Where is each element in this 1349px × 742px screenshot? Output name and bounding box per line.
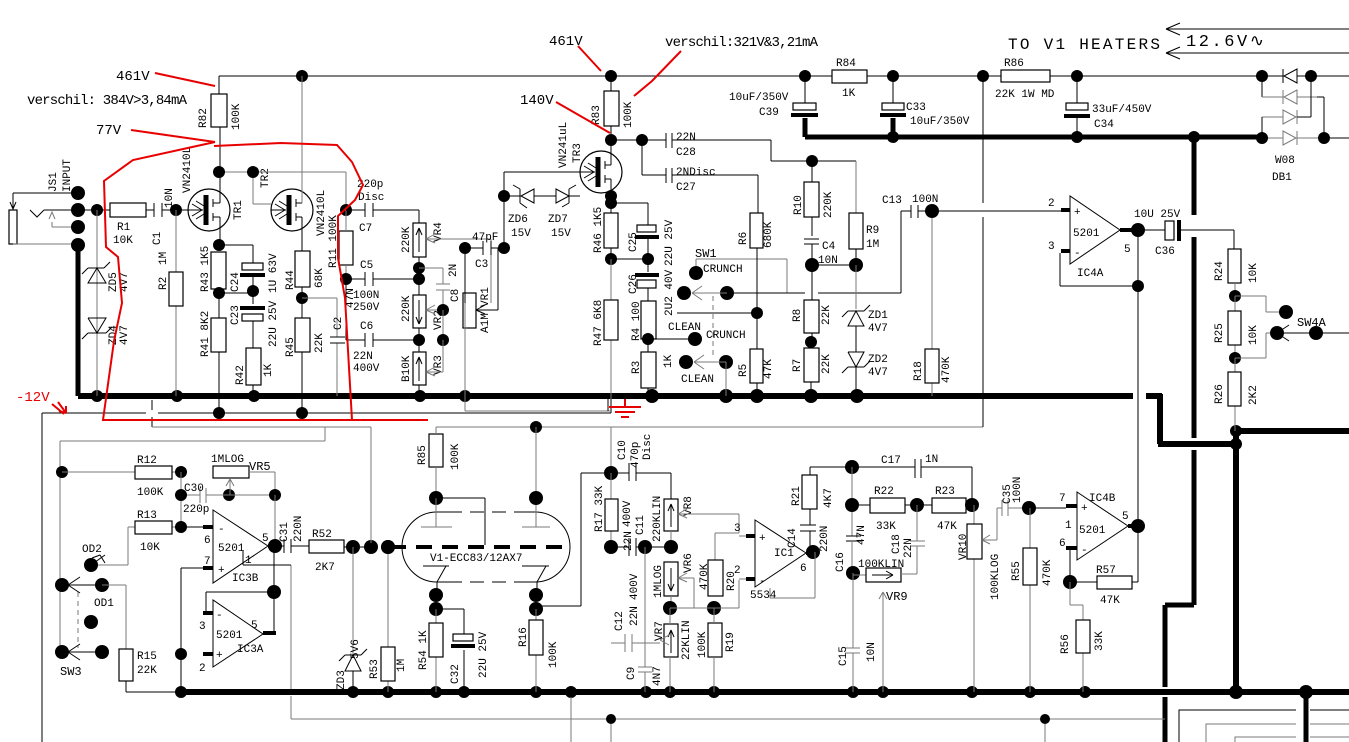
svg-text:+: +: [216, 650, 223, 662]
svg-text:5V6: 5V6: [350, 639, 362, 659]
capacitor C10 470p Disc: [581, 434, 671, 499]
svg-text:C6: C6: [360, 321, 373, 333]
svg-text:100K: 100K: [623, 101, 635, 128]
potentiometer VR1 A1M: [451, 248, 498, 396]
red annotation 461V right: [549, 34, 601, 71]
svg-text:470K: 470K: [1042, 559, 1054, 586]
svg-text:220KLIN: 220KLIN: [652, 496, 664, 542]
svg-text:100K: 100K: [137, 487, 164, 499]
svg-text:100N: 100N: [912, 194, 938, 206]
svg-text:CLEAN: CLEAN: [681, 374, 714, 386]
svg-text:VN2410L: VN2410L: [316, 190, 328, 236]
svg-text:R4 100: R4 100: [631, 301, 643, 341]
svg-text:Disc: Disc: [642, 434, 654, 460]
svg-text:100N: 100N: [353, 290, 379, 302]
svg-text:R17 33K: R17 33K: [594, 485, 606, 532]
potentiometer VR3 B10K: [401, 340, 445, 396]
capacitor C36 10U 25V: [1134, 209, 1234, 258]
zener ZD4 4V7: [82, 318, 131, 345]
svg-text:15V: 15V: [511, 228, 531, 240]
svg-text:R57: R57: [1096, 565, 1116, 577]
svg-text:R18: R18: [913, 361, 925, 381]
capacitor C14 220N: [787, 525, 831, 552]
svg-text:47K: 47K: [937, 521, 957, 533]
capacitor C4 10N: [804, 239, 863, 272]
svg-text:ZD2: ZD2: [868, 354, 888, 366]
svg-text:VR1: VR1: [480, 287, 492, 307]
capacitor C25 22U 25V: [611, 203, 676, 266]
op-amp IC1 5534: [734, 520, 820, 602]
svg-text:R8: R8: [792, 309, 804, 322]
svg-text:-12V: -12V: [16, 390, 50, 406]
svg-text:6: 6: [1059, 538, 1066, 550]
svg-text:47pF: 47pF: [472, 232, 498, 244]
svg-text:R54 1K: R54 1K: [418, 630, 430, 670]
svg-text:+: +: [218, 565, 225, 577]
diode OD2: [82, 544, 105, 572]
transistor TR3 VN241uL: [558, 122, 622, 209]
svg-text:100K: 100K: [450, 443, 462, 470]
bridge rectifier W08 DB1: [1256, 69, 1349, 184]
svg-text:100K: 100K: [697, 631, 709, 658]
switch SW4A: [1235, 296, 1349, 358]
svg-text:100KLIN: 100KLIN: [858, 559, 904, 571]
svg-text:47K: 47K: [1100, 595, 1120, 607]
capacitor C2 47N: [302, 288, 357, 396]
svg-text:470K: 470K: [699, 563, 711, 590]
wire below-bus line y=719: [291, 565, 1165, 742]
svg-text:220K: 220K: [401, 295, 413, 322]
capacitor C32 22U 25V: [436, 609, 490, 692]
svg-text:15V: 15V: [551, 228, 571, 240]
resistor R1: [91, 203, 146, 247]
resistor R18 470K: [913, 211, 953, 396]
svg-text:verschil:321V&3,21mA: verschil:321V&3,21mA: [665, 35, 819, 51]
resistor R6 680K: [738, 213, 775, 319]
zener ZD5 4V7: [82, 210, 131, 396]
svg-text:4V7: 4V7: [868, 323, 888, 335]
svg-text:R45: R45: [285, 337, 297, 357]
red loop around input stage: [103, 142, 428, 420]
svg-text:C10: C10: [617, 440, 629, 460]
svg-text:5201: 5201: [1079, 525, 1106, 537]
svg-text:R19: R19: [725, 632, 737, 652]
svg-text:ZD6: ZD6: [508, 214, 528, 226]
wire -12V rail y=413: [42, 399, 611, 742]
resistor R20 470K: [699, 560, 738, 596]
svg-text:22K: 22K: [821, 305, 833, 325]
capacitor C39 10uF/350V: [729, 76, 818, 119]
svg-text:R10: R10: [793, 195, 805, 215]
svg-text:VR9: VR9: [886, 590, 908, 604]
svg-text:33uF/450V: 33uF/450V: [1092, 104, 1152, 116]
svg-text:22N: 22N: [623, 531, 635, 551]
svg-text:C17: C17: [881, 455, 901, 467]
svg-text:6: 6: [800, 563, 807, 575]
svg-text:R16: R16: [518, 627, 530, 647]
svg-text:470K: 470K: [941, 356, 953, 383]
resistor R56 33K: [1060, 582, 1106, 692]
svg-text:verschil: 384V>3,84mA: verschil: 384V>3,84mA: [27, 93, 188, 109]
svg-text:220p: 220p: [183, 504, 209, 516]
resistor R47 6K8: [593, 259, 618, 399]
resistor R5 47K: [738, 313, 775, 396]
svg-text:C14: C14: [787, 528, 799, 548]
svg-text:C3: C3: [475, 259, 488, 271]
svg-text:5534: 5534: [750, 590, 777, 602]
svg-text:C13: C13: [882, 195, 902, 207]
capacitor C35 100N: [997, 477, 1066, 516]
svg-text:R9: R9: [866, 225, 879, 237]
svg-text:1: 1: [1065, 520, 1072, 532]
resistor R24 10K: [1214, 249, 1260, 302]
resistor R13 10K: [91, 510, 187, 565]
resistor R46 1K5: [593, 203, 618, 265]
resistor R42 1K: [235, 348, 275, 396]
potentiometer VR4 220K: [401, 222, 491, 303]
svg-text:B10K: B10K: [401, 355, 413, 382]
svg-text:C9: C9: [626, 667, 638, 680]
svg-text:TR3: TR3: [572, 143, 584, 163]
svg-text:C12: C12: [614, 611, 626, 631]
svg-text:400V: 400V: [353, 363, 380, 375]
svg-text:VR7: VR7: [654, 621, 666, 641]
svg-text:10K: 10K: [113, 235, 133, 247]
svg-text:C26: C26: [628, 274, 640, 294]
svg-text:4V7: 4V7: [868, 367, 888, 379]
svg-text:3: 3: [734, 523, 741, 535]
svg-text:100K: 100K: [231, 103, 243, 130]
svg-text:100N: 100N: [1012, 477, 1024, 503]
svg-text:10K: 10K: [140, 542, 160, 554]
resistor R7 22K: [792, 342, 833, 396]
svg-text:220K: 220K: [823, 191, 835, 218]
svg-text:C34: C34: [1094, 119, 1114, 131]
svg-text:VN2410L: VN2410L: [182, 147, 194, 193]
svg-text:ZD1: ZD1: [868, 310, 888, 322]
svg-text:461V: 461V: [549, 34, 583, 50]
resistor R8 22K: [792, 265, 833, 348]
diode OD1 switch: [55, 577, 126, 649]
svg-text:10N: 10N: [866, 642, 878, 662]
resistor R55 470K: [1011, 508, 1054, 692]
svg-text:IC4A: IC4A: [1077, 268, 1104, 280]
svg-text:22K: 22K: [314, 333, 326, 353]
capacitor C18 22N: [891, 505, 925, 574]
svg-text:2: 2: [734, 565, 741, 577]
resistor R2 1M: [158, 210, 183, 396]
svg-text:22K: 22K: [137, 665, 157, 677]
wire thick heater vertical x=1194: [1165, 137, 1194, 742]
wire gray feed y=441: [60, 427, 325, 652]
resistor R44 68K: [285, 251, 326, 304]
svg-text:C27: C27: [676, 182, 696, 194]
capacitor C23 22U 25V: [219, 291, 280, 348]
resistor R43 1K5: [200, 239, 226, 299]
svg-text:R25: R25: [1214, 323, 1226, 343]
svg-text:TR2: TR2: [260, 168, 272, 188]
zener ZD7 15V: [548, 185, 580, 240]
capacitor C11 22N 400V: [604, 500, 678, 556]
svg-text:1M: 1M: [158, 252, 170, 265]
svg-text:100K: 100K: [548, 641, 560, 668]
resistor R54 1K: [418, 609, 443, 692]
wire heater lines to V1: [1008, 23, 1349, 59]
svg-text:2K2: 2K2: [1248, 385, 1260, 405]
svg-text:INPUT: INPUT: [62, 159, 74, 192]
svg-text:IC1: IC1: [774, 548, 794, 560]
svg-text:R52: R52: [312, 529, 332, 541]
svg-text:77V: 77V: [96, 123, 122, 139]
capacitor C33 10uF/350V: [880, 76, 970, 137]
svg-text:400V: 400V: [629, 573, 641, 600]
svg-text:C11: C11: [635, 515, 647, 535]
resistor R4 100: [631, 301, 656, 345]
resistor R23 47K: [932, 486, 979, 533]
capacitor C27 2NDisc: [642, 140, 758, 213]
svg-text:CRUNCH: CRUNCH: [706, 330, 746, 342]
svg-text:4V7: 4V7: [119, 325, 131, 345]
svg-text:1MLOG: 1MLOG: [211, 454, 244, 466]
svg-text:400V: 400V: [622, 500, 634, 527]
capacitor C26 2U2 40V: [611, 259, 676, 316]
resistor R9 1M: [849, 161, 879, 265]
svg-text:ZD3: ZD3: [336, 670, 348, 690]
svg-text:-: -: [1081, 545, 1088, 557]
svg-text:2U2 40V: 2U2 40V: [664, 269, 676, 316]
svg-text:R53: R53: [369, 659, 381, 679]
svg-text:SW3: SW3: [60, 665, 82, 679]
svg-text:5: 5: [251, 620, 258, 632]
resistor R26 2K2: [1214, 358, 1260, 431]
svg-text:R5: R5: [738, 364, 750, 377]
capacitor C24 1U 63V: [219, 245, 280, 297]
svg-text:IC3B: IC3B: [232, 573, 259, 585]
svg-text:C30: C30: [184, 483, 204, 495]
red annotation 461V left: [116, 69, 215, 86]
svg-text:22N: 22N: [629, 606, 641, 626]
svg-text:220K: 220K: [401, 226, 413, 253]
potentiometer VR10 100KLOG: [958, 505, 1002, 692]
transistor TR2 VN2410L: [253, 76, 328, 251]
svg-text:22U 25V: 22U 25V: [664, 219, 676, 266]
svg-text:R84: R84: [836, 58, 856, 70]
svg-text:C25: C25: [628, 232, 640, 252]
svg-text:+: +: [759, 533, 766, 545]
svg-text:22KLIN: 22KLIN: [681, 620, 693, 660]
svg-text:R2: R2: [158, 277, 170, 290]
resistor R17 33K: [594, 473, 618, 547]
op-amp IC4A 5201: [1048, 196, 1145, 292]
svg-text:TR1: TR1: [233, 200, 245, 220]
svg-text:R85: R85: [417, 445, 429, 465]
capacitor C7 220p Disc: [346, 179, 419, 235]
resistor R57 47K: [1063, 526, 1138, 607]
svg-text:C28: C28: [676, 147, 696, 159]
svg-text:33K: 33K: [876, 521, 896, 533]
svg-text:C31: C31: [279, 522, 291, 542]
svg-text:A1M: A1M: [480, 313, 492, 333]
svg-text:R3: R3: [631, 361, 643, 374]
svg-text:6: 6: [204, 535, 211, 547]
svg-text:10U 25V: 10U 25V: [1134, 209, 1181, 221]
svg-text:461V: 461V: [116, 69, 150, 85]
svg-text:22N: 22N: [353, 351, 373, 363]
svg-text:22U 25V: 22U 25V: [478, 631, 490, 678]
capacitor C12 22N 400V: [611, 573, 660, 652]
op-amp IC4B 5201: [1059, 492, 1145, 560]
svg-text:Disc: Disc: [358, 192, 384, 204]
svg-text:V1-ECC83/12AX7: V1-ECC83/12AX7: [430, 553, 522, 565]
svg-text:R86: R86: [1004, 58, 1024, 70]
svg-text:C1: C1: [152, 231, 164, 245]
svg-text:1K: 1K: [263, 363, 275, 377]
red annotation 140V: [520, 93, 610, 133]
input jack JS1: [9, 159, 110, 252]
svg-text:5201: 5201: [216, 630, 243, 642]
capacitor C1: [146, 188, 188, 245]
svg-text:3: 3: [199, 621, 206, 633]
svg-text:R21: R21: [791, 486, 803, 506]
svg-text:R24: R24: [1214, 261, 1226, 281]
svg-text:100KLOG: 100KLOG: [990, 554, 1002, 600]
svg-text:-: -: [1074, 248, 1081, 260]
svg-text:250V: 250V: [353, 302, 380, 314]
wire bottom bus y=692: [175, 685, 1349, 699]
potentiometer VR8 220KLIN: [652, 496, 739, 560]
svg-text:2: 2: [1048, 198, 1055, 210]
svg-text:2K7: 2K7: [315, 562, 335, 574]
svg-text:R46 1K5: R46 1K5: [593, 207, 605, 253]
svg-text:DB1: DB1: [1272, 172, 1292, 184]
svg-text:5: 5: [1122, 511, 1129, 523]
wire thick ground left x=78: [76, 248, 81, 396]
svg-text:C36: C36: [1155, 246, 1175, 258]
svg-text:OD1: OD1: [94, 598, 114, 610]
resistor R53 1M: [369, 547, 408, 692]
svg-text:4N7: 4N7: [652, 666, 664, 686]
wire right cathode to C10 column: [536, 473, 581, 606]
svg-text:R15: R15: [137, 651, 157, 663]
resistor R19 100K: [670, 580, 739, 692]
svg-text:-: -: [218, 524, 225, 536]
svg-text:SW4A: SW4A: [1297, 316, 1327, 330]
red annotation 77V: [96, 123, 215, 142]
svg-text:-: -: [216, 610, 223, 622]
svg-text:R82: R82: [198, 108, 210, 128]
svg-text:R13: R13: [137, 510, 157, 522]
resistor R84 1K: [832, 58, 867, 100]
svg-text:5201: 5201: [1073, 228, 1100, 240]
red annotation verschil right: [634, 35, 819, 96]
potentiometer VR9 100KLIN: [853, 559, 908, 692]
zener ZD2 4V7: [842, 352, 888, 396]
svg-text:R47 6K8: R47 6K8: [593, 300, 605, 346]
svg-text:VR10: VR10: [958, 534, 970, 560]
zener ZD6 15V: [498, 185, 556, 240]
capacitor C17 1N: [810, 454, 972, 505]
svg-text:10K: 10K: [1248, 325, 1260, 345]
capacitor C3 47pF: [459, 232, 510, 303]
svg-text:5: 5: [262, 533, 269, 545]
resistor R16 100K: [518, 609, 560, 692]
svg-text:R55: R55: [1011, 561, 1023, 581]
svg-text:R1: R1: [117, 222, 131, 234]
svg-text:C2: C2: [333, 317, 345, 330]
svg-text:R43 1K5: R43 1K5: [200, 246, 212, 292]
svg-text:680K: 680K: [763, 221, 775, 248]
capacitor C13 100N: [882, 194, 1061, 218]
svg-text:220N: 220N: [819, 526, 831, 552]
svg-text:1MLOG: 1MLOG: [653, 565, 665, 598]
svg-text:R42: R42: [235, 365, 247, 385]
svg-text:2NDisc: 2NDisc: [676, 167, 716, 179]
svg-text:3: 3: [1048, 241, 1055, 253]
svg-text:47N: 47N: [856, 525, 868, 545]
switch SW1: [648, 211, 901, 396]
svg-text:22K 1W MD: 22K 1W MD: [995, 89, 1055, 101]
resistor R3 1K: [631, 339, 675, 396]
capacitor C16 47N: [835, 525, 868, 580]
wire IC4A output column: [1137, 230, 1139, 526]
svg-text:W08: W08: [1275, 155, 1295, 167]
svg-text:2N: 2N: [448, 264, 460, 277]
resistor R11 100K: [328, 204, 353, 279]
svg-text:5: 5: [1124, 244, 1131, 256]
svg-text:OD2: OD2: [82, 544, 102, 556]
wire thick bus y=137: [805, 118, 1259, 143]
svg-text:C4: C4: [822, 241, 836, 253]
svg-text:68K: 68K: [314, 268, 326, 288]
svg-text:VR8: VR8: [683, 496, 695, 516]
resistor R10 220K: [793, 161, 835, 236]
svg-text:7: 7: [1059, 493, 1066, 505]
svg-text:-: -: [759, 576, 766, 588]
svg-text:R44: R44: [285, 270, 297, 290]
svg-text:R22: R22: [874, 486, 894, 498]
wire screen line y=427: [152, 76, 983, 545]
svg-text:470p: 470p: [630, 442, 642, 468]
wire thick output x=1306: [1304, 692, 1309, 742]
svg-text:33K: 33K: [1094, 631, 1106, 651]
ground chassis red: [609, 399, 641, 417]
svg-text:C23: C23: [230, 305, 242, 325]
transistor TR1 VN2410L: [182, 127, 245, 245]
svg-text:7: 7: [204, 556, 211, 568]
resistor R21 4K7: [791, 467, 835, 525]
svg-text:5201: 5201: [218, 543, 245, 555]
wire SW1 common to C13: [677, 312, 757, 314]
svg-text:C24: C24: [230, 272, 242, 292]
svg-text:R56: R56: [1060, 634, 1072, 654]
svg-text:C32: C32: [450, 664, 462, 684]
svg-text:22N: 22N: [676, 132, 696, 144]
resistor R15 22K: [119, 649, 177, 692]
svg-text:R23: R23: [935, 486, 955, 498]
potentiometer VR6 1MLOG: [653, 553, 695, 608]
svg-text:R26: R26: [1214, 384, 1226, 404]
svg-text:ZD7: ZD7: [548, 214, 568, 226]
svg-text:C5: C5: [360, 260, 373, 272]
resistor R85 100K: [371, 427, 462, 543]
potentiometer VR7 22KLIN: [654, 601, 693, 692]
node TR1 drain junctions y=172: [213, 166, 346, 210]
svg-text:1M: 1M: [396, 659, 408, 672]
svg-text:1U 63V: 1U 63V: [268, 253, 280, 293]
svg-text:C18: C18: [891, 534, 903, 554]
svg-text:1K: 1K: [663, 354, 675, 368]
wire gate TR3: [504, 172, 580, 248]
